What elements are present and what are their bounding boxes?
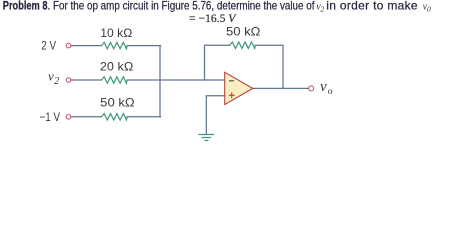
svg-text:50 kΩ: 50 kΩ [226, 24, 260, 38]
svg-text:in order to make: in order to make [326, 0, 418, 13]
svg-text:20 kΩ: 20 kΩ [100, 60, 133, 74]
svg-text:= −16.5 V: = −16.5 V [189, 12, 237, 25]
svg-text:2: 2 [54, 76, 59, 87]
svg-text:v: v [48, 69, 54, 84]
svg-text:Problem 8: Problem 8 [3, 0, 48, 13]
svg-text:. For the op amp circuit in Fi: . For the op amp circuit in Figure 5.76,… [48, 0, 316, 13]
svg-text:10 kΩ: 10 kΩ [100, 26, 132, 40]
svg-text:2 V: 2 V [41, 38, 56, 52]
svg-text:o: o [328, 87, 333, 97]
svg-text:v: v [320, 79, 327, 95]
svg-text:−1 V: −1 V [40, 110, 61, 124]
svg-text:0: 0 [427, 5, 431, 14]
svg-text:50 kΩ: 50 kΩ [100, 96, 134, 110]
svg-text:2: 2 [320, 5, 324, 14]
